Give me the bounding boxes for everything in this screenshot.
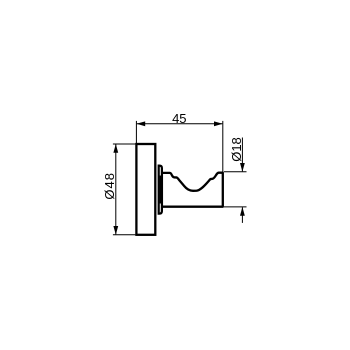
- svg-text:45: 45: [172, 111, 186, 126]
- dim O18: lower arrowhead (points up): [240, 207, 245, 216]
- dim 45: left extension line: [135, 121, 137, 144]
- dim O48: top arrowhead: [113, 144, 118, 153]
- dim O48: top extension line: [113, 143, 135, 145]
- dim O18: upper arrowhead (points down): [240, 163, 245, 172]
- wall plate (side view): [136, 144, 155, 235]
- collar flange between plate and hook: [159, 166, 162, 214]
- dim 45: left arrowhead: [136, 121, 145, 126]
- dim O18: upper dimension line: [241, 138, 243, 172]
- dim 45: dimension line: [137, 123, 222, 125]
- dim O48: bottom extension line: [113, 234, 135, 236]
- hook body profile: [162, 173, 223, 207]
- dim 45: right arrowhead: [214, 121, 223, 126]
- dim O48: bottom arrowhead: [113, 226, 118, 235]
- dim O18: top extension line: [224, 171, 247, 173]
- dim O48: dimension line: [115, 145, 117, 235]
- dim O18: bottom extension line: [224, 206, 247, 208]
- dim 45: right extension line: [222, 121, 224, 172]
- svg-text:Ø48: Ø48: [102, 172, 117, 200]
- hook stem shade inside collar: [159, 176, 161, 204]
- svg-text:Ø18: Ø18: [229, 137, 244, 162]
- dim O18: lower dimension line: [241, 207, 243, 223]
